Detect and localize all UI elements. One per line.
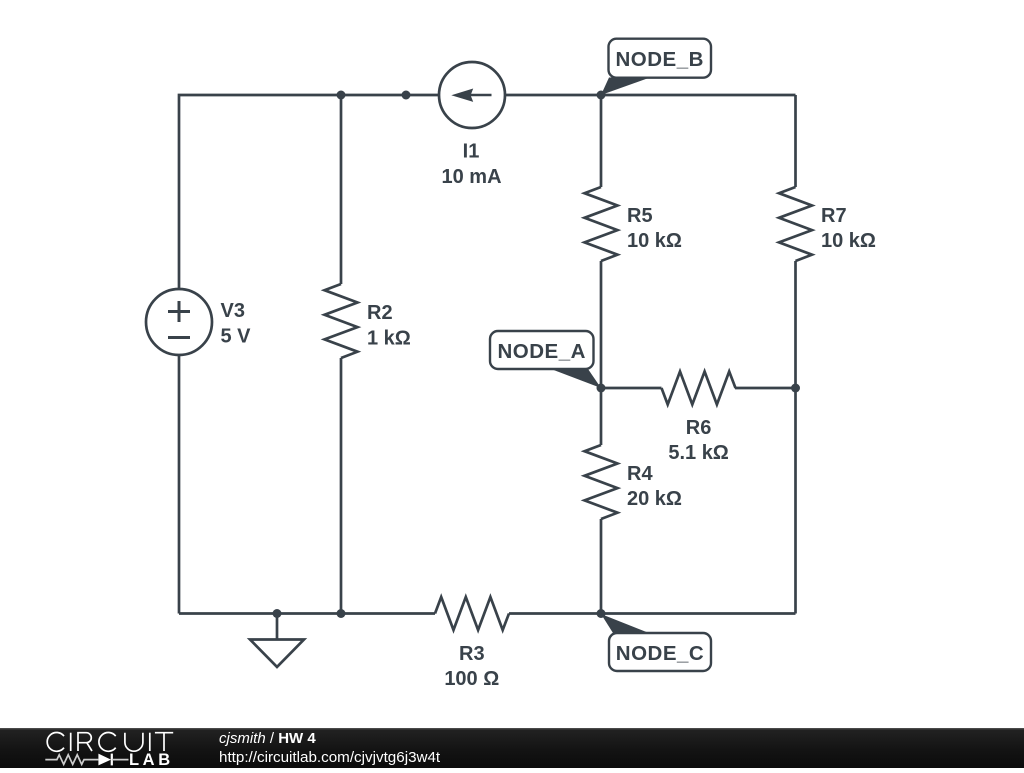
wire node A to R6 left: [601, 387, 662, 390]
logo letter C: [47, 733, 64, 752]
svg-text:I1: I1: [463, 141, 480, 163]
svg-text:10 kΩ: 10 kΩ: [821, 230, 876, 252]
current source I1 circle: [439, 62, 505, 128]
svg-text:100 Ω: 100 Ω: [444, 668, 499, 690]
node A callout tail: [551, 369, 601, 388]
logo waveform resistor: [45, 755, 98, 765]
junction dot R2 top: [337, 91, 346, 100]
wire R2 bottom lead: [340, 358, 343, 614]
logo letter T: [155, 733, 173, 751]
svg-text:NODE_C: NODE_C: [616, 642, 704, 665]
node B label box: [609, 39, 712, 78]
svg-text:R5: R5: [627, 205, 653, 227]
ground triangle: [250, 640, 304, 668]
svg-text:20 kΩ: 20 kΩ: [627, 488, 682, 510]
svg-text:1 kΩ: 1 kΩ: [367, 328, 411, 350]
wire R4 top lead: [600, 388, 603, 445]
svg-text:NODE_B: NODE_B: [615, 48, 703, 71]
junction dot ground: [273, 609, 282, 618]
logo letter I: [70, 733, 72, 751]
junction dot wire end top: [402, 91, 411, 100]
wire R4 bottom lead: [600, 519, 603, 614]
wire R6 right to right rail: [735, 387, 796, 390]
junction dot R2 bottom: [337, 609, 346, 618]
resistor R2: [325, 284, 358, 358]
junction dot node A: [597, 384, 606, 393]
logo letter C2: [99, 733, 116, 752]
svg-text:NODE_A: NODE_A: [497, 340, 585, 363]
resistor R7: [779, 187, 812, 261]
svg-text:10 kΩ: 10 kΩ: [627, 230, 682, 252]
wire right rail lower: [794, 261, 797, 614]
svg-text:5.1 kΩ: 5.1 kΩ: [668, 442, 729, 464]
svg-text:R3: R3: [459, 643, 485, 665]
wire top left: V3 top to I1 left: [179, 95, 439, 289]
junction dot node C: [597, 609, 606, 618]
wire bottom right segment: [509, 612, 796, 615]
node C label box: [609, 633, 711, 671]
logo letter I2: [149, 733, 151, 751]
svg-text:LAB: LAB: [129, 751, 174, 768]
logo diode: [98, 754, 111, 766]
svg-text:R6: R6: [686, 417, 712, 439]
resistor R3: [435, 597, 509, 630]
svg-text:R7: R7: [821, 205, 847, 227]
svg-text:cjsmith / HW 4: cjsmith / HW 4: [219, 730, 316, 747]
V3 minus sign: [168, 336, 190, 339]
svg-text:5 V: 5 V: [221, 326, 252, 348]
wire R2 top lead: [340, 95, 343, 284]
resistor R6: [662, 372, 736, 405]
junction dot node B: [597, 91, 606, 100]
ground stem: [276, 614, 279, 640]
logo letter U: [125, 733, 143, 751]
voltage source V3 circle: [146, 289, 212, 355]
I1 arrow shaft: [468, 94, 492, 97]
svg-text:R4: R4: [627, 463, 653, 485]
I1 arrowhead: [451, 89, 473, 102]
wire R5 top lead: [600, 95, 603, 187]
wire left rail lower: V3 bottom to bottom-left corner: [178, 355, 181, 614]
wire R5 bottom lead to node A: [600, 261, 603, 388]
junction dot R6 right: [791, 384, 800, 393]
svg-text:10 mA: 10 mA: [441, 166, 501, 188]
wire right rail upper: [794, 95, 797, 187]
wire bottom left segment: [179, 612, 435, 615]
svg-text:http://circuitlab.com/cjvjvtg6: http://circuitlab.com/cjvjvtg6j3w4t: [219, 749, 441, 766]
wire top right: I1 right to right rail: [505, 94, 796, 97]
resistor R5: [585, 187, 618, 261]
svg-text:V3: V3: [221, 300, 245, 322]
V3 plus sign: [168, 301, 190, 338]
node A label box: [490, 331, 594, 369]
logo letter R: [78, 733, 92, 751]
svg-text:R2: R2: [367, 302, 393, 324]
node B callout tail: [601, 78, 650, 96]
node C callout tail: [601, 614, 649, 633]
resistor R4: [585, 445, 618, 519]
logo CIRCUIT wordmark: [47, 733, 173, 752]
